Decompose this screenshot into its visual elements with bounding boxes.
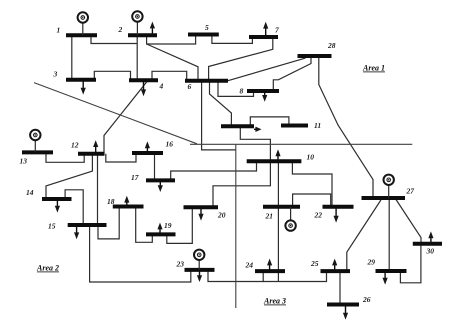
wire line 10-21 <box>277 161 279 207</box>
wire line 6-10 <box>202 81 236 150</box>
bus 7 <box>249 35 278 39</box>
svg-text:29: 29 <box>367 258 376 267</box>
bus 21 <box>263 205 300 209</box>
load arrow bus 7 (up) <box>263 22 268 37</box>
svg-text:3: 3 <box>53 70 58 79</box>
bus 18 <box>113 205 144 209</box>
svg-text:25: 25 <box>310 259 319 268</box>
generator G13 <box>30 130 40 153</box>
bus 8 <box>247 89 279 93</box>
bus 13 <box>22 150 53 154</box>
wire line 10-17 <box>171 161 257 180</box>
load arrow bus 23 (down) <box>197 270 202 282</box>
svg-text:18: 18 <box>107 197 115 206</box>
bus 12 <box>78 152 105 156</box>
wire line 29-30 <box>400 244 421 283</box>
wire line 12-13 <box>46 152 84 162</box>
load arrow bus 29 (down) <box>383 271 388 285</box>
bus 20 <box>184 205 219 209</box>
bus 30 <box>413 242 442 246</box>
load arrow bus 19 (up) <box>157 223 162 235</box>
svg-text:13: 13 <box>20 157 28 166</box>
svg-text:Area 2: Area 2 <box>36 264 59 273</box>
load arrow bus 26 (down) <box>343 305 348 320</box>
area boundary diagonal <box>34 83 197 144</box>
load arrow bus 12 (up) <box>93 140 98 154</box>
bus 3 <box>66 78 96 82</box>
generator G27 <box>384 175 394 198</box>
generator G21 <box>285 207 295 231</box>
wire line 27-30 <box>396 200 421 244</box>
wire line 1-2 <box>91 35 137 43</box>
bus 11 <box>281 124 308 128</box>
bus 23 <box>185 268 215 272</box>
bus 4 <box>129 78 158 82</box>
svg-text:30: 30 <box>426 247 435 256</box>
wire line 6-8 <box>218 81 254 97</box>
load arrow bus 4 (down) <box>141 80 146 96</box>
bus 24 <box>255 269 285 273</box>
load arrow bus 3 (down) <box>81 80 86 95</box>
wire line 16-17 <box>154 153 156 180</box>
svg-text:5: 5 <box>205 23 209 32</box>
wire line 6-7 <box>209 37 273 81</box>
load arrow bus 25 (up) <box>332 259 337 272</box>
svg-text:1: 1 <box>57 26 61 35</box>
load arrow bus 9 (right) <box>254 127 262 132</box>
load arrow bus 2 (up) <box>150 22 155 36</box>
svg-text:Area 3: Area 3 <box>263 297 286 306</box>
wire line 4-6 <box>152 71 187 81</box>
wire line 5-7 <box>212 35 253 44</box>
wire line 2-4 <box>136 35 138 80</box>
svg-text:14: 14 <box>26 188 34 197</box>
load arrow bus 22 (down) <box>334 207 339 223</box>
svg-text:Area 1: Area 1 <box>362 64 385 73</box>
wire line 22-24 <box>277 207 279 282</box>
svg-text:20: 20 <box>217 211 226 220</box>
wire line 1-3 <box>71 35 73 80</box>
wire line 10-22 <box>292 161 332 207</box>
svg-text:2: 2 <box>118 25 123 34</box>
bus 22 <box>323 205 354 209</box>
wire line 6-28 <box>228 56 306 81</box>
bus 15 <box>68 223 107 227</box>
bus 27 <box>362 196 406 200</box>
wire line 24-25 <box>263 271 326 281</box>
load arrow bus 20 (down) <box>198 207 203 220</box>
wire line 9-11 <box>250 117 289 126</box>
load arrow bus 10 (up) <box>275 149 280 161</box>
wire line 18-19 <box>136 207 153 243</box>
svg-text:24: 24 <box>245 261 254 270</box>
wire line 14-15 <box>65 190 83 225</box>
area boundary horizontal <box>190 143 412 145</box>
svg-text:26: 26 <box>362 295 371 304</box>
generator G2 <box>132 11 142 35</box>
bus 25 <box>321 269 351 273</box>
generator G1 <box>78 12 88 35</box>
wire line 6-9 <box>210 81 232 126</box>
bus 28 <box>298 54 332 58</box>
svg-text:10: 10 <box>307 153 315 162</box>
bus 1 <box>66 33 97 37</box>
load arrow bus 24 (up) <box>267 259 272 272</box>
load arrow bus 15 (down) <box>74 225 79 239</box>
load arrow bus 8 (down) <box>262 91 267 102</box>
wire line 10-20 <box>213 161 270 207</box>
wire line 9-10 <box>240 126 270 161</box>
svg-text:21: 21 <box>265 212 274 221</box>
wire line 28-27 <box>319 56 373 198</box>
load arrow bus 30 (up) <box>428 231 433 243</box>
svg-text:22: 22 <box>314 211 323 220</box>
bus 26 <box>327 303 359 307</box>
load arrow bus 17 (down) <box>158 180 163 192</box>
bus 29 <box>376 269 407 273</box>
load arrow bus 18 (up) <box>124 196 129 207</box>
wire line 25-26 <box>339 271 341 304</box>
generator G23 <box>194 250 204 270</box>
svg-text:15: 15 <box>48 222 56 231</box>
svg-text:6: 6 <box>188 82 192 91</box>
wire line 25-27 <box>347 200 381 271</box>
wire line 8-28 <box>273 56 311 91</box>
bus 5 <box>188 33 219 37</box>
bus 2 <box>128 33 157 37</box>
wire line 15-18 <box>98 207 119 239</box>
wire line 21-22 <box>293 194 331 207</box>
wire line 19-20 <box>167 207 193 243</box>
area boundary vertical <box>235 144 237 308</box>
wire line 3-4 <box>94 71 130 80</box>
svg-text:28: 28 <box>327 41 336 50</box>
wire line 2-5 <box>147 35 196 45</box>
wire line 12-16 <box>106 153 136 162</box>
svg-text:11: 11 <box>314 121 321 130</box>
svg-text:23: 23 <box>176 260 185 269</box>
wire line 4-12 <box>104 80 148 154</box>
svg-text:4: 4 <box>159 82 164 91</box>
wire line 12-14 <box>46 154 92 199</box>
load arrow bus 14 (down) <box>55 199 60 213</box>
svg-text:19: 19 <box>164 221 172 230</box>
bus 6 <box>185 79 228 83</box>
wire line 15-23 <box>90 225 191 282</box>
svg-text:16: 16 <box>166 140 174 149</box>
wire line 12-15 <box>97 154 99 225</box>
bus 10 <box>247 159 302 163</box>
wire line 23-24 <box>208 270 263 282</box>
bus 17 <box>146 178 175 182</box>
bus 14 <box>42 197 72 201</box>
bus 9 <box>221 124 254 128</box>
svg-text:8: 8 <box>240 87 244 96</box>
svg-text:17: 17 <box>131 173 139 182</box>
wire line 2-6 <box>147 44 198 81</box>
svg-text:12: 12 <box>71 141 79 150</box>
bus 19 <box>146 232 176 236</box>
svg-text:27: 27 <box>406 187 415 196</box>
bus 16 <box>132 151 163 155</box>
svg-text:7: 7 <box>275 26 279 35</box>
wire line 27-29 <box>388 198 390 271</box>
load arrow bus 16 (up) <box>145 141 150 153</box>
